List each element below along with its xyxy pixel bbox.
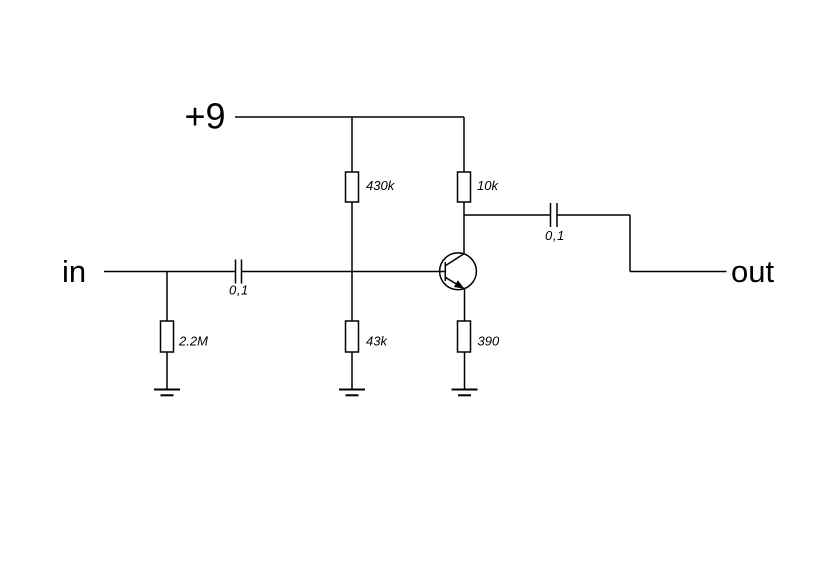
svg-text:0,1: 0,1 — [229, 283, 249, 298]
svg-text:390: 390 — [478, 334, 500, 349]
svg-text:0,1: 0,1 — [545, 228, 565, 243]
svg-text:2.2M: 2.2M — [178, 334, 208, 349]
svg-text:43k: 43k — [366, 334, 388, 349]
svg-text:10k: 10k — [477, 178, 499, 193]
svg-text:out: out — [731, 254, 774, 289]
svg-text:in: in — [62, 254, 86, 289]
svg-text:430k: 430k — [366, 178, 396, 193]
svg-text:+9: +9 — [185, 96, 226, 137]
